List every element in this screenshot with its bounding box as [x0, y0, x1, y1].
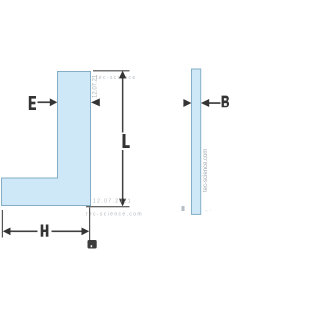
small blob glyph below right extension — [88, 240, 97, 249]
svg-text:t e c - s c i e n c e . c o m: t e c - s c i e n c e . c o m — [86, 212, 142, 218]
wire: thickness dim shaft left — [38, 101, 52, 103]
label H — [41, 225, 49, 237]
H dim shaft right — [52, 231, 83, 233]
L-profile body — [2, 72, 91, 206]
bar thickness shaft right — [209, 102, 221, 104]
tiny marks near bar bottom left — [182, 206, 185, 211]
extension line bottom right of L dim — [86, 206, 130, 207]
label E — [29, 96, 36, 110]
extension line left of H dim — [2, 210, 3, 238]
bar thickness: arrowhead pointing left at bar right edge — [201, 99, 209, 107]
bar thickness: arrowhead pointing right at bar left edge — [183, 99, 191, 107]
vertical dimension line upper part — [122, 73, 124, 133]
H dim shaft left — [9, 231, 38, 233]
svg-text:←·: ←· — [205, 208, 212, 214]
flat bar body — [192, 69, 201, 214]
svg-text:tec-science.com: tec-science.com — [203, 149, 209, 192]
label B — [222, 96, 229, 108]
extension line right of H dim — [89, 208, 90, 246]
label L — [123, 134, 130, 148]
arrowhead down — [119, 199, 126, 207]
svg-text:t e c - s c i e n c e: t e c - s c i e n c e — [96, 75, 135, 81]
arrowhead pointing right (H dim) — [82, 228, 90, 236]
vertical dimension line lower part — [122, 150, 124, 204]
arrowhead pointing left at right edge of vertical limb — [91, 98, 100, 106]
arrowhead pointing left (H dim) — [3, 228, 11, 236]
arrowhead up — [119, 71, 126, 79]
svg-text:1 2 . 0 7 . 2 0 2 1: 1 2 . 0 7 . 2 0 2 1 — [93, 199, 131, 205]
extension line top — [93, 70, 130, 71]
arrowhead pointing right at left edge of vertical limb — [50, 98, 58, 106]
